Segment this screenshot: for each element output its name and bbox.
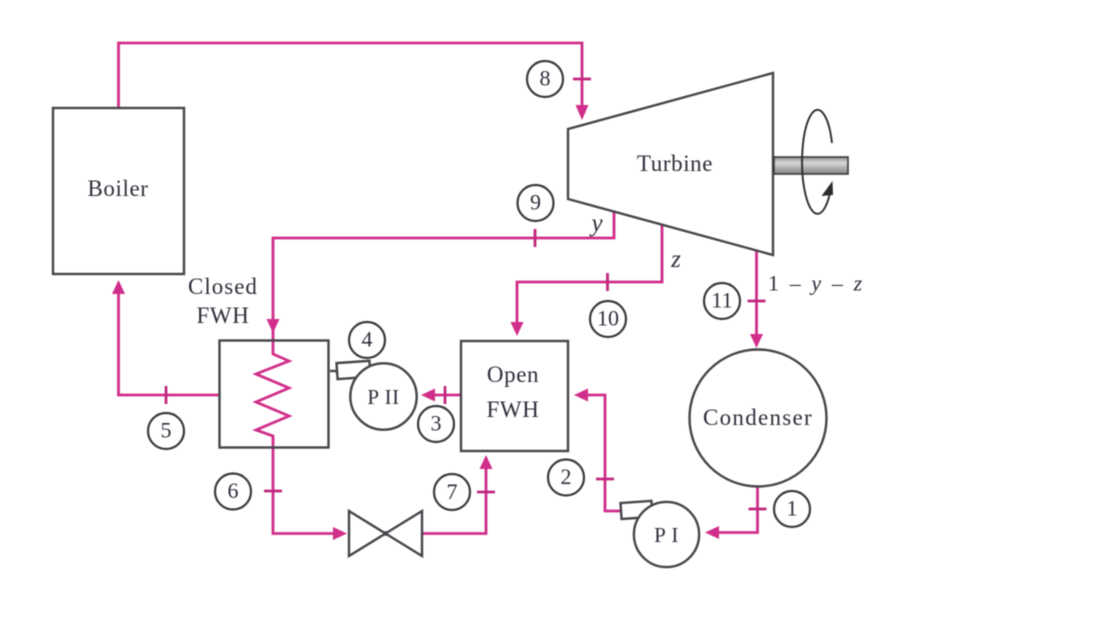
svg-text:1 – y – z: 1 – y – z	[768, 271, 865, 296]
svg-text:5: 5	[161, 418, 172, 443]
svg-text:y: y	[588, 210, 603, 237]
svg-text:Open: Open	[487, 362, 539, 387]
svg-text:2: 2	[561, 464, 572, 489]
svg-text:Condenser: Condenser	[703, 405, 813, 430]
svg-text:7: 7	[447, 479, 458, 504]
svg-text:10: 10	[597, 306, 619, 331]
svg-text:z: z	[670, 246, 681, 273]
svg-text:P I: P I	[654, 523, 679, 547]
svg-text:9: 9	[530, 190, 541, 215]
svg-text:Turbine: Turbine	[637, 151, 713, 176]
svg-text:1: 1	[787, 496, 798, 521]
svg-text:FWH: FWH	[487, 397, 540, 422]
svg-text:FWH: FWH	[197, 303, 250, 328]
svg-text:Boiler: Boiler	[87, 176, 148, 201]
svg-text:3: 3	[431, 411, 442, 436]
svg-text:Closed: Closed	[188, 274, 258, 299]
svg-text:4: 4	[362, 327, 373, 352]
svg-text:P II: P II	[367, 385, 399, 409]
svg-text:8: 8	[540, 66, 551, 91]
svg-text:6: 6	[228, 478, 239, 503]
svg-text:11: 11	[711, 288, 732, 313]
